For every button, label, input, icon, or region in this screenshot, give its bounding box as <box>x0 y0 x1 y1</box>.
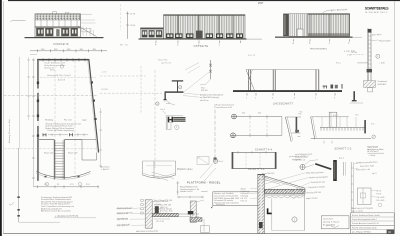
top wall <box>37 59 89 61</box>
lower window/door row of hall <box>166 31 243 39</box>
joist line with tick row <box>320 126 366 128</box>
title stamp dark block top right <box>258 2 389 14</box>
left margin items <box>4 96 99 223</box>
small bracket symbol lower left <box>353 91 355 101</box>
elevation east (top-middle) <box>120 12 262 57</box>
floor plan lower (core + curved platform edge) <box>33 133 99 188</box>
building outline <box>35 14 81 37</box>
plan top wall mullion ticks <box>43 58 85 61</box>
leader annotations right <box>306 171 328 200</box>
right wall vertical detail (top right) <box>350 29 390 104</box>
plan right dim pole <box>100 108 102 168</box>
interior annotation block lower <box>46 122 81 132</box>
ground line <box>25 37 104 38</box>
horizontal joist band <box>265 189 305 193</box>
circled 1 <box>292 217 297 222</box>
height dimension pole <box>127 12 129 39</box>
legend list bottom-left-middle <box>101 166 174 227</box>
slanted dark bar <box>315 163 332 170</box>
detail: corner H-beam small <box>161 108 186 130</box>
title block table bottom right <box>351 213 395 234</box>
text lines right of it <box>376 190 384 202</box>
elevation north (top-left) <box>11 12 104 46</box>
room text row above core <box>45 118 87 121</box>
hatched footing <box>364 81 376 88</box>
dark beam embedded in wall lower <box>259 222 263 228</box>
small perspective lines <box>152 172 175 181</box>
small rect detail <box>357 188 371 204</box>
grid dashed verticals <box>54 61 56 179</box>
tall hall striped curtain wall <box>164 15 246 39</box>
signature stamp box bottom <box>321 216 349 229</box>
small bits on curve <box>45 176 80 178</box>
outer dim line with dark ticks <box>18 148 20 222</box>
small platform plan detail (mid-bottom-left) <box>143 161 208 198</box>
stair core double walls <box>54 140 64 180</box>
handwriting annotations upper right <box>356 161 378 175</box>
dark vertical bar <box>333 160 337 181</box>
interior annotation text top <box>45 62 66 72</box>
section markers with crosses (schnitt 4-4 left) <box>231 112 282 151</box>
small leader arrow left margin <box>11 20 26 21</box>
vertical hatched wall strip <box>145 200 152 228</box>
small box below H <box>168 123 171 130</box>
thick ground beam <box>233 90 342 92</box>
wall marks right <box>91 81 97 120</box>
elevation west gable (top-right) <box>275 8 362 56</box>
bottom line <box>311 137 371 139</box>
dim line <box>177 196 204 198</box>
layered deck band to right <box>173 117 185 122</box>
top annotations above wall <box>262 173 274 179</box>
section 1-1 box (below 4-4) <box>232 151 277 171</box>
stair treads <box>55 143 65 177</box>
wall annotations left <box>241 188 250 202</box>
detail: I-beam section with circle 2 <box>172 80 183 91</box>
bottom-left notes text block <box>41 196 96 218</box>
handwriting above title table <box>352 207 373 213</box>
ceiling line + wavy insulation <box>265 194 305 196</box>
circled marks beside curve <box>45 182 48 185</box>
bottom-center wall section detail 1 <box>145 200 199 228</box>
Traeger detail annotation box (right) <box>295 145 384 161</box>
plan top dimension row <box>30 49 107 55</box>
scan noise overlay <box>0 0 1 1</box>
left inner dim pole <box>32 58 34 186</box>
bottom dimension line <box>33 186 99 188</box>
left pole with x-marks <box>210 60 212 79</box>
mid band columns <box>41 20 77 27</box>
black L bracket <box>267 208 272 214</box>
big eave corner detail (bottom center-right) <box>241 171 329 234</box>
leader annotations left of bc details <box>116 207 130 227</box>
floor plan upper (large, left) <box>32 58 99 186</box>
H beam section <box>168 117 170 123</box>
small box below <box>200 226 209 233</box>
left wall <box>37 59 38 181</box>
right slanted wall <box>89 59 99 153</box>
scan edge top line <box>8 0 400 1</box>
detail: angle bracket with circle 1 <box>156 91 234 109</box>
low annex with dark windows <box>141 28 164 39</box>
bottom right details <box>351 161 384 213</box>
H columns row <box>43 133 73 136</box>
vertical cut pole mid sheet <box>197 104 223 166</box>
grid ticks below <box>156 41 241 44</box>
chimney box <box>329 112 337 127</box>
sheet border left <box>2 1 5 234</box>
right annex with ramp diagonal <box>81 13 93 15</box>
handwriting block left of it <box>295 153 312 162</box>
sheet border bottom <box>3 232 394 235</box>
vertical dim pole right of it <box>177 181 179 195</box>
roof vents <box>53 12 57 14</box>
sloped roof top lines <box>264 176 305 188</box>
middle grid dashes <box>100 66 162 168</box>
diagonal leader lines left of traufe <box>200 164 216 182</box>
small middle section (trapezoid) <box>285 112 302 142</box>
wall opening marks left <box>37 82 39 137</box>
ticks below <box>247 93 335 96</box>
dark left pier <box>283 14 289 37</box>
window band dark modules <box>36 27 81 36</box>
ticks below <box>294 39 350 41</box>
main striped gable <box>308 14 350 37</box>
gutter detail right of traufe <box>289 155 346 181</box>
scan edge black strip left <box>0 0 2 236</box>
check mark <box>9 202 14 205</box>
long section (Laengsschnitt) <box>200 60 343 105</box>
light bay with white door <box>289 14 308 37</box>
hatched wall vertical <box>258 175 265 234</box>
text rows under label <box>180 186 208 193</box>
bottom-center wall section detail 2 <box>188 200 210 232</box>
texts above <box>289 155 344 162</box>
leader texts left <box>0 0 1 1</box>
section 2-2 drawing <box>298 112 375 150</box>
sheet border right <box>393 1 396 234</box>
small furniture marks right <box>323 84 343 89</box>
faint notes above midfield <box>158 58 171 64</box>
vertical jamb pair <box>350 162 352 213</box>
curved bottom edge <box>36 172 90 178</box>
slab dark band <box>152 213 178 216</box>
clerestory band <box>36 14 81 20</box>
dashed line left of plan <box>4 148 98 150</box>
leader lines <box>371 190 376 197</box>
ground line <box>139 39 247 40</box>
interior walls around core <box>39 140 97 160</box>
ground line <box>275 37 353 38</box>
notes box mid-bottom <box>211 192 258 208</box>
interior room lines <box>271 199 273 231</box>
outer left dimension line full height <box>19 57 21 148</box>
